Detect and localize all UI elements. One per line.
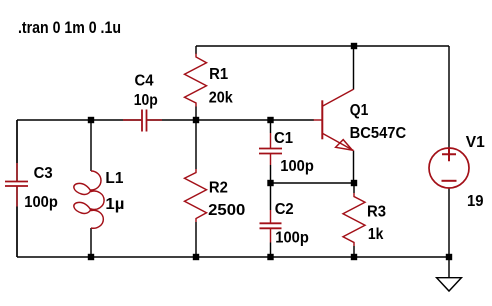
svg-text:L1: L1 (105, 170, 123, 187)
svg-text:100p: 100p (24, 194, 58, 211)
svg-text:R1: R1 (209, 66, 228, 83)
svg-text:100p: 100p (280, 158, 314, 175)
svg-text:2500: 2500 (208, 202, 245, 219)
svg-text:R3: R3 (367, 203, 386, 220)
svg-text:1µ: 1µ (105, 196, 124, 213)
svg-text:100p: 100p (275, 230, 309, 247)
svg-text:.tran 0 1m 0 .1u: .tran 0 1m 0 .1u (18, 18, 121, 37)
svg-text:C2: C2 (275, 201, 294, 218)
svg-text:C4: C4 (135, 72, 154, 89)
svg-text:1k: 1k (368, 226, 384, 243)
svg-text:19: 19 (467, 193, 484, 210)
svg-text:Q1: Q1 (350, 102, 369, 119)
svg-text:BC547C: BC547C (350, 125, 407, 142)
svg-text:R2: R2 (209, 179, 228, 196)
svg-text:C3: C3 (34, 165, 53, 182)
svg-text:10p: 10p (134, 92, 158, 109)
svg-text:C1: C1 (274, 130, 293, 147)
svg-text:V1: V1 (466, 134, 485, 151)
svg-text:20k: 20k (209, 90, 233, 107)
